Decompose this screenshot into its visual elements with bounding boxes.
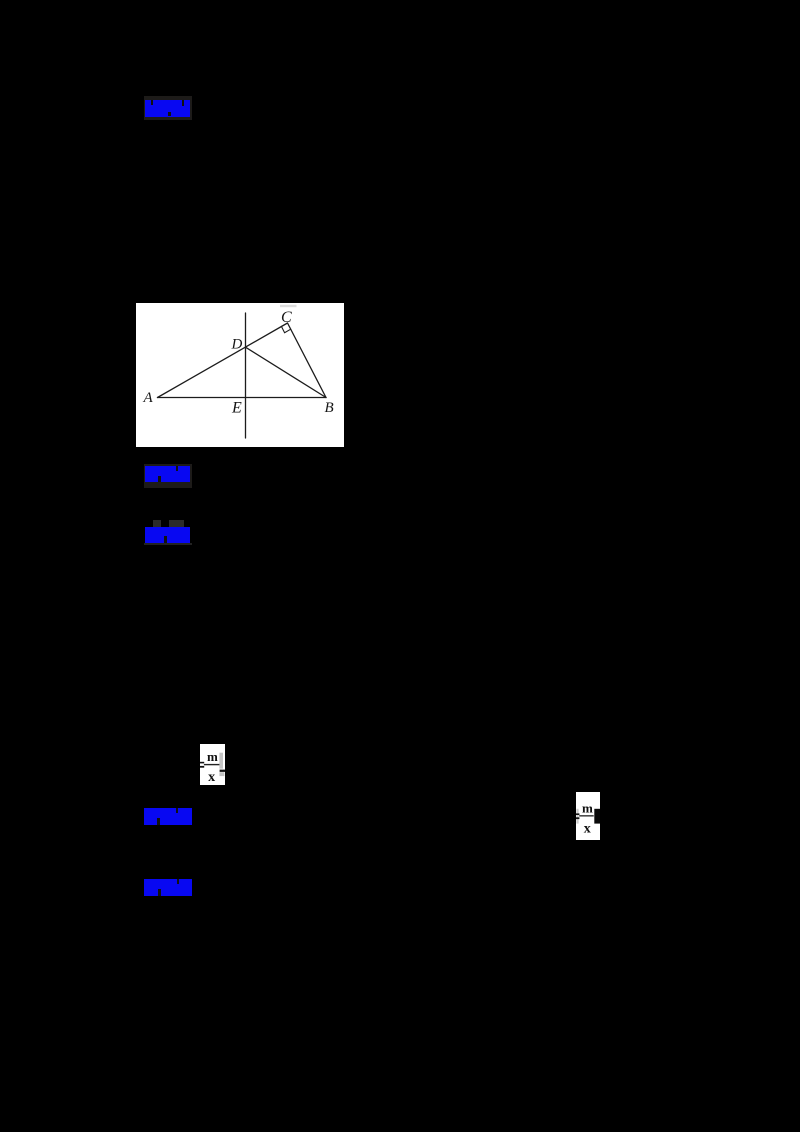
blue label 2 <box>145 466 190 482</box>
svg-text:E: E <box>231 399 242 416</box>
blue label 3 <box>145 527 191 543</box>
svg-text:A: A <box>143 390 154 406</box>
svg-text:x: x <box>583 821 590 836</box>
segment DB <box>246 347 327 397</box>
blue label 1 <box>145 100 190 117</box>
formula image 1: = m/x <box>200 744 225 785</box>
equals sign fragment <box>576 813 579 815</box>
segment AC through D <box>158 323 288 398</box>
right angle mark at C <box>281 326 290 332</box>
svg-text:B: B <box>325 400 334 416</box>
faint mark above C <box>280 305 297 307</box>
blue label 4 <box>144 808 192 825</box>
fraction bar <box>203 763 219 764</box>
svg-text:D: D <box>231 337 243 353</box>
perpendicular bisector vertical line <box>245 313 247 438</box>
fraction bar <box>579 815 594 816</box>
equals sign fragment at left edge <box>200 761 204 763</box>
vertex labels <box>143 309 334 417</box>
svg-text:m: m <box>582 800 593 815</box>
segment CB <box>288 323 327 398</box>
blue label 2 highlight backing <box>144 464 193 488</box>
grey left column <box>576 808 578 823</box>
grey ascender marks above label 3 <box>153 520 161 527</box>
segment AB <box>158 397 327 399</box>
formula image 2: = m/x <box>576 792 600 841</box>
svg-text:C: C <box>281 309 292 326</box>
svg-text:x: x <box>208 770 215 785</box>
geometry figure image box <box>136 303 344 447</box>
blue label 5 <box>144 879 192 896</box>
grey overlap column right <box>219 752 223 768</box>
blue label 1 highlight backing <box>144 96 193 120</box>
svg-text:m: m <box>206 749 217 764</box>
black overlapping character block right <box>594 808 600 823</box>
